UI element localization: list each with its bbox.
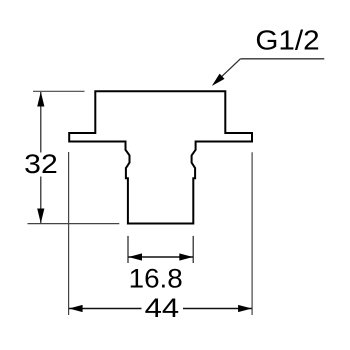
svg-text:32: 32 (24, 149, 58, 179)
arrow right (16.8) (179, 253, 193, 260)
extension line left (16.8 dim) (127, 236, 129, 263)
leader line horizontal (G1/2) (240, 58, 324, 60)
extension line right (44 dim) (251, 152, 253, 315)
dimension line 32 (40, 92, 42, 153)
arrow up (32) (37, 92, 44, 107)
arrow down (32) (37, 209, 44, 224)
arrow left (16.8) (128, 253, 142, 260)
svg-text:G1/2: G1/2 (255, 25, 319, 56)
extension line bottom (32 dim) (28, 223, 120, 225)
arrow left (44) (69, 305, 83, 312)
dimension line 44 left segment (69, 308, 142, 310)
extension line top (32 dim) (33, 90, 85, 92)
extension line right (16.8 dim) (192, 236, 194, 263)
svg-text:16.8: 16.8 (129, 263, 183, 293)
leader arrowhead (G1/2) (212, 74, 225, 86)
fitting body outline (69, 91, 252, 223)
leader line diagonal (G1/2) (214, 59, 240, 84)
arrow right (44) (238, 305, 252, 312)
extension line left (44 dim) (68, 152, 70, 315)
dimension line 44 right segment (183, 308, 252, 310)
dimension line 16.8 (128, 256, 193, 258)
svg-text:44: 44 (145, 294, 180, 324)
